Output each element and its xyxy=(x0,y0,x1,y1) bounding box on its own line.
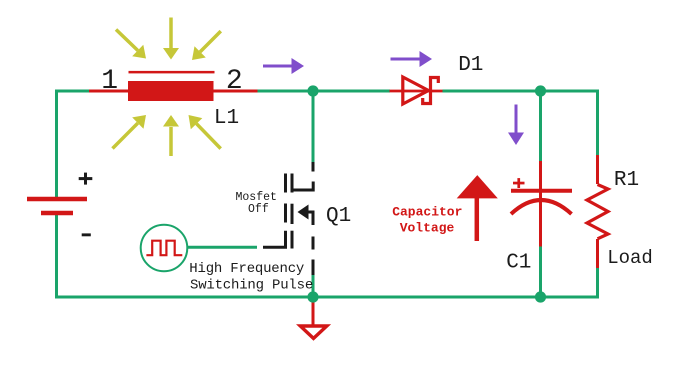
svg-text:D1: D1 xyxy=(458,54,483,77)
purple current arrow 1 (after L1) xyxy=(263,58,304,74)
diode D1 cathode bar with schottky hooks xyxy=(423,78,439,104)
svg-text:Off: Off xyxy=(248,203,269,216)
svg-text:L1: L1 xyxy=(214,107,239,130)
wire capacitor red vertical xyxy=(539,161,542,247)
wire mosfet source green xyxy=(312,275,315,297)
wire top inductor to diode (green) xyxy=(258,90,391,93)
inductor L1 body xyxy=(128,81,214,101)
wire gate pulse green xyxy=(188,246,258,249)
pulse source circle xyxy=(141,225,188,272)
wire red stub left of L1 xyxy=(89,90,128,93)
transistor Q1 gate line dashes xyxy=(284,174,287,193)
node junction bottom mosfet/ground xyxy=(307,291,318,302)
yellow arrow bottom middle xyxy=(163,115,179,156)
capacitor C1 bottom curved plate xyxy=(511,200,572,214)
wire right vertical green bottom xyxy=(596,268,599,299)
wire capacitor top green xyxy=(539,91,542,161)
wire mosfet drain green xyxy=(312,91,315,162)
wire right resistor bottom lead red xyxy=(596,239,599,269)
capacitor C1 top plate xyxy=(511,189,572,193)
wire red through diode xyxy=(390,90,444,93)
node junction top capacitor xyxy=(535,85,546,96)
battery minus label xyxy=(82,233,91,236)
svg-text:2: 2 xyxy=(226,66,243,97)
transistor Q1 drain corner xyxy=(292,182,313,191)
pulse waveform xyxy=(146,241,182,256)
inductor L1 top bar xyxy=(129,71,215,74)
wire bottom (green) xyxy=(57,296,598,299)
yellow arrow top left xyxy=(116,30,146,59)
diode D1 triangle xyxy=(403,77,429,104)
svg-text:Load: Load xyxy=(607,247,653,269)
svg-text:R1: R1 xyxy=(614,169,639,192)
yellow arrow top middle xyxy=(163,18,179,60)
transistor Q1 gate lead xyxy=(263,231,286,248)
capacitor plus label xyxy=(513,182,525,185)
ground symbol xyxy=(300,326,327,338)
svg-text:Capacitor: Capacitor xyxy=(392,204,462,219)
yellow arrow bottom left xyxy=(113,115,147,149)
wire right vertical green top xyxy=(596,90,599,156)
capacitor voltage arrow xyxy=(457,175,498,198)
svg-text:Switching Pulse: Switching Pulse xyxy=(190,278,313,294)
node junction top mosfet xyxy=(307,85,318,96)
transistor Q1 drain terminal dash xyxy=(312,162,315,172)
resistor R1 zigzag xyxy=(587,185,608,239)
wire top from battery to inductor (green) xyxy=(57,90,91,93)
transistor Q1 body arrow xyxy=(298,205,309,220)
wire capacitor bottom green xyxy=(539,247,542,298)
battery V1 short plate xyxy=(41,211,73,216)
wire red stub right of L1 xyxy=(214,90,259,93)
wire top diode to right corner (green) xyxy=(443,90,598,93)
svg-text:1: 1 xyxy=(101,66,118,97)
wire left vertical battery bottom xyxy=(55,213,58,299)
wire right resistor top lead red xyxy=(596,155,599,184)
yellow arrow top right xyxy=(192,31,221,60)
yellow arrow bottom right xyxy=(189,115,221,149)
transistor Q1 source terminal dashes xyxy=(312,237,315,250)
svg-text:Voltage: Voltage xyxy=(400,221,455,236)
svg-text:Q1: Q1 xyxy=(326,205,351,228)
purple current arrow 2 (above D1) xyxy=(391,51,433,67)
wire left vertical battery top xyxy=(55,90,58,200)
battery plus label xyxy=(79,177,93,180)
ground wire red xyxy=(312,297,315,325)
transistor Q1 channel line dashes xyxy=(291,174,294,193)
svg-text:C1: C1 xyxy=(506,252,531,275)
purple current arrow 3 (down to C1) xyxy=(508,105,524,146)
node junction bottom capacitor xyxy=(535,291,546,302)
svg-text:High Frequency: High Frequency xyxy=(189,261,304,277)
battery V1 long plate xyxy=(27,197,87,202)
